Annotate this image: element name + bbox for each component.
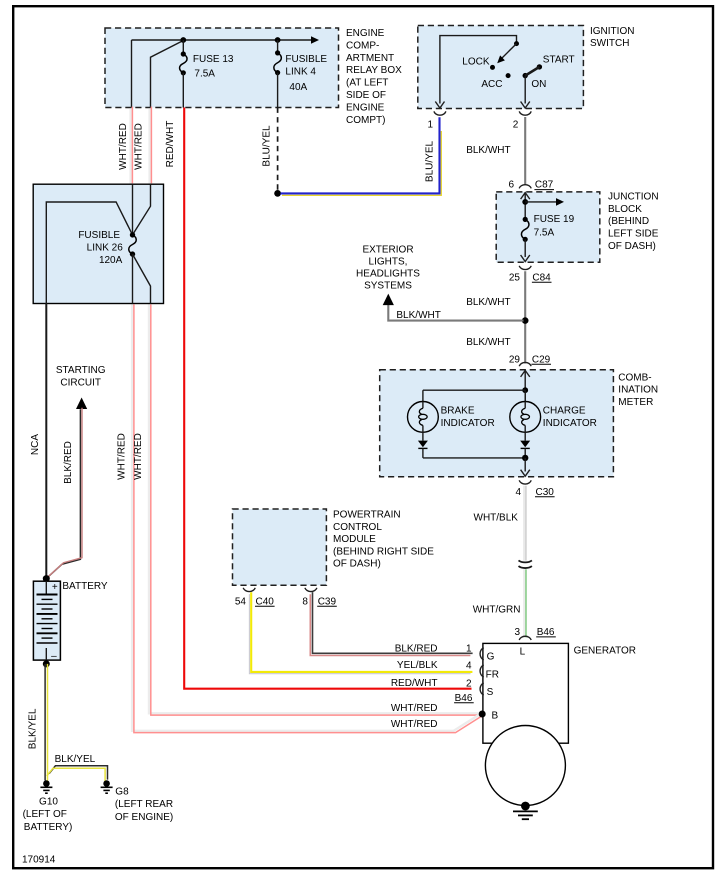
wire WHT/GRN: [523, 569, 526, 637]
wire BLK/RED C39 to generator G: [313, 592, 473, 653]
svg-text:C84: C84: [532, 272, 551, 283]
wire BLK/WHT ignition pin2 to C87: [524, 117, 526, 185]
node fuse13 bus junction: [180, 37, 186, 43]
wire WHT/RED 2 inside relay box: [151, 41, 184, 108]
arrow to right in relay box: [311, 36, 319, 44]
svg-text:G8: G8: [115, 786, 129, 797]
wire BLK/RED battery to starting circuit: [46, 409, 81, 579]
svg-text:BATTERY): BATTERY): [24, 822, 73, 833]
fuse F13 FUSE 13 7.5A: [181, 51, 186, 56]
svg-text:6: 6: [508, 180, 514, 191]
svg-text:COMP-: COMP-: [346, 40, 379, 51]
svg-text:29: 29: [509, 354, 521, 365]
wire below fl26 right: [133, 254, 151, 303]
node fusible link 4 bus junction: [275, 37, 281, 43]
svg-text:B46: B46: [537, 627, 555, 638]
node junction block tap: [522, 199, 528, 205]
wire ignition pin2: [524, 76, 526, 104]
lamp charge indicator: [524, 390, 526, 401]
svg-text:BLK/YEL: BLK/YEL: [28, 708, 39, 749]
svg-text:LIGHTS,: LIGHTS,: [369, 257, 408, 268]
wire WHT/RED A inside box: [132, 184, 134, 235]
svg-text:1: 1: [427, 120, 433, 131]
wire below fusible link 4: [277, 73, 279, 108]
svg-text:SIDE OF: SIDE OF: [346, 90, 386, 101]
wire into junction block: [524, 193, 526, 219]
svg-text:STARTING: STARTING: [56, 365, 106, 376]
svg-text:C40: C40: [256, 596, 275, 607]
ignition switch box: [418, 26, 584, 109]
connector C39: [305, 588, 317, 592]
arrow up at junction block top: [521, 193, 530, 200]
wire below fuse19: [524, 239, 526, 257]
svg-text:BLK/WHT: BLK/WHT: [466, 297, 510, 308]
svg-text:S: S: [487, 687, 494, 698]
connector C29: [519, 362, 531, 366]
wire BLK/WHT C84 to C29: [524, 271, 526, 363]
svg-text:WHT/BLK: WHT/BLK: [474, 512, 519, 523]
wire BLK/YEL battery to G10: [44, 664, 46, 781]
wire battery feed inside box: [46, 202, 132, 304]
battery: [33, 581, 60, 660]
svg-text:ON: ON: [531, 79, 546, 90]
svg-text:4: 4: [466, 661, 472, 672]
svg-text:G: G: [487, 651, 495, 662]
svg-text:OF ENGINE): OF ENGINE): [115, 812, 173, 823]
wire RED/WHT long from fuse13 to generator S: [184, 108, 471, 689]
svg-text:BLK/WHT: BLK/WHT: [466, 337, 510, 348]
connector FR pin 4: [480, 665, 484, 677]
svg-text:BLOCK: BLOCK: [608, 204, 642, 215]
connector C40: [243, 588, 255, 592]
svg-text:C39: C39: [318, 596, 337, 607]
junction block box: [496, 192, 600, 262]
svg-text:SYSTEMS: SYSTEMS: [364, 281, 412, 292]
svg-text:FUSIBLE: FUSIBLE: [78, 230, 120, 241]
svg-text:C87: C87: [535, 180, 554, 191]
svg-text:CIRCUIT: CIRCUIT: [60, 377, 101, 388]
inline connector break: [519, 560, 532, 562]
svg-text:(AT LEFT: (AT LEFT: [346, 78, 388, 89]
svg-text:+: +: [52, 582, 58, 593]
arrow up starting circuit: [76, 398, 87, 410]
arrow up exterior lights: [383, 294, 394, 306]
switch blade toward LOCK: [501, 44, 517, 60]
wire WHT/RED B inside box: [133, 184, 151, 235]
svg-text:LEFT SIDE: LEFT SIDE: [608, 228, 659, 239]
wire fl4 stub: [277, 40, 279, 53]
svg-text:G10: G10: [39, 797, 58, 808]
arrow into pin 2: [521, 102, 530, 109]
svg-text:LINK 26: LINK 26: [87, 242, 124, 253]
svg-text:CHARGE: CHARGE: [543, 406, 586, 417]
svg-text:BLK/RED: BLK/RED: [63, 441, 74, 484]
connector C87: [519, 185, 531, 189]
svg-text:YEL/BLK: YEL/BLK: [397, 660, 438, 671]
svg-text:WHT/RED: WHT/RED: [134, 123, 145, 170]
svg-text:3: 3: [514, 627, 520, 638]
node battery negative: [43, 660, 50, 667]
wire WHT/RED B relay box to fusible link box: [148, 108, 150, 185]
wire WHT/RED 1 inside relay box: [131, 40, 133, 108]
svg-text:(LEFT REAR: (LEFT REAR: [115, 799, 173, 810]
wire comb meter main: [524, 371, 526, 402]
wire WHT/RED A relay box to fusible link box: [129, 108, 131, 185]
wire comb meter out: [524, 458, 526, 472]
svg-text:GENERATOR: GENERATOR: [574, 646, 636, 657]
svg-text:8: 8: [302, 596, 308, 607]
arrow down at junction block bottom: [521, 255, 530, 262]
generator ground: [521, 802, 530, 811]
svg-text:START: START: [543, 54, 575, 65]
svg-text:FUSIBLE: FUSIBLE: [285, 54, 327, 65]
wire WHT/BLK: [523, 486, 526, 561]
contact ACC: [506, 73, 511, 78]
wire BLU/YEL blue: [281, 117, 440, 193]
node comb meter tap: [522, 387, 528, 393]
fusible link FL26 LINK 26 120A: [130, 232, 135, 237]
connector pin 1: [434, 111, 446, 115]
wire BLU/YEL yellow stripe: [282, 131, 441, 195]
diode brake: [418, 441, 428, 448]
connector B46 pin 3: [519, 636, 531, 640]
svg-text:IGNITION: IGNITION: [590, 26, 634, 37]
svg-text:ENGINE: ENGINE: [346, 102, 385, 113]
wire WHT/RED 2 to B terminal: [149, 303, 480, 714]
svg-text:2: 2: [466, 679, 472, 690]
svg-text:C30: C30: [536, 487, 555, 498]
svg-text:ENGINE: ENGINE: [346, 28, 385, 39]
fuse F19 FUSE 19 7.5A: [523, 217, 528, 222]
wire below fl26 left: [132, 254, 134, 303]
arrow into pin 1: [435, 102, 444, 109]
svg-text:2: 2: [513, 120, 519, 131]
svg-text:25: 25: [509, 272, 521, 283]
combination meter box: [380, 370, 614, 477]
svg-text:OF DASH): OF DASH): [333, 559, 381, 570]
svg-text:BLK/YEL: BLK/YEL: [55, 754, 96, 765]
svg-text:LOCK: LOCK: [462, 57, 490, 68]
svg-text:WHT/RED: WHT/RED: [133, 433, 144, 480]
svg-text:FUSE 13: FUSE 13: [193, 54, 234, 65]
ground G8: [103, 780, 110, 787]
svg-text:BLK/WHT: BLK/WHT: [396, 310, 440, 321]
wire NCA fusible box to battery: [45, 304, 47, 579]
svg-text:WHT/RED: WHT/RED: [118, 123, 129, 170]
svg-text:RELAY BOX: RELAY BOX: [346, 65, 402, 76]
svg-text:–: –: [51, 651, 57, 662]
svg-text:WHT/GRN: WHT/GRN: [473, 605, 521, 616]
terminal B node: [479, 711, 486, 718]
wire ignition pin1 feed: [440, 36, 517, 104]
fusible link FL4 LINK 4 40A: [275, 50, 280, 55]
connector C84: [519, 266, 531, 270]
svg-text:L: L: [520, 647, 526, 658]
arrow on LOCK blade: [497, 55, 505, 63]
svg-text:1: 1: [466, 643, 472, 654]
wire BLK/WHT branch to exterior lights: [388, 305, 523, 321]
svg-text:BLU/YEL: BLU/YEL: [262, 125, 273, 167]
svg-text:LINK 4: LINK 4: [285, 67, 316, 78]
svg-text:COMPT): COMPT): [346, 115, 385, 126]
svg-text:INDICATOR: INDICATOR: [441, 418, 495, 429]
svg-text:BLK/WHT: BLK/WHT: [466, 145, 510, 156]
svg-text:NCA: NCA: [30, 434, 41, 455]
svg-text:JUNCTION: JUNCTION: [608, 191, 659, 202]
wire below fuse13: [182, 73, 184, 108]
svg-text:OF DASH): OF DASH): [608, 241, 656, 252]
svg-text:CONTROL: CONTROL: [333, 522, 382, 533]
wire to brake indicator: [423, 389, 525, 391]
svg-text:SWITCH: SWITCH: [590, 38, 629, 49]
wire YEL/BLK C40 to generator FR: [251, 592, 472, 672]
svg-text:FR: FR: [486, 670, 499, 681]
wire bottom bus in comb meter: [423, 457, 525, 459]
contact LOCK: [490, 65, 495, 70]
generator box: [483, 643, 569, 743]
switch blade ON-START: [525, 67, 539, 76]
wire tap arrow right: [525, 201, 556, 203]
svg-text:ACC: ACC: [481, 79, 502, 90]
svg-text:C29: C29: [532, 354, 551, 365]
svg-text:INATION: INATION: [618, 385, 658, 396]
ground G10: [43, 780, 50, 787]
svg-text:170914: 170914: [22, 855, 56, 866]
fusible link 26 box: [33, 184, 163, 303]
svg-text:BLK/RED: BLK/RED: [395, 644, 438, 655]
diode charge: [520, 441, 530, 448]
svg-text:POWERTRAIN: POWERTRAIN: [333, 510, 401, 521]
svg-text:FUSE 19: FUSE 19: [534, 214, 575, 225]
svg-text:120A: 120A: [99, 255, 123, 266]
contact START: [537, 64, 542, 69]
svg-text:BLU/YEL: BLU/YEL: [425, 140, 436, 182]
generator rotor circle: [485, 726, 565, 806]
node BLU/YEL junction: [274, 190, 281, 197]
node rotor pivot: [514, 41, 519, 46]
svg-text:54: 54: [235, 596, 247, 607]
svg-text:WHT/RED: WHT/RED: [391, 703, 438, 714]
node battery positive: [43, 575, 50, 582]
svg-text:RED/WHT: RED/WHT: [165, 121, 176, 168]
svg-text:METER: METER: [618, 397, 653, 408]
connector pin 2: [519, 111, 531, 115]
svg-text:7.5A: 7.5A: [194, 68, 215, 79]
engine compartment relay box: [105, 28, 339, 108]
wire BLU/YEL dashed section: [277, 108, 279, 194]
connector G pin 1: [480, 648, 484, 660]
wire BLK/YEL branch to G8: [49, 766, 107, 780]
contact ON: [523, 73, 528, 78]
connector C30: [519, 480, 531, 484]
svg-text:(BEHIND: (BEHIND: [608, 216, 649, 227]
svg-text:B: B: [492, 711, 499, 722]
svg-text:INDICATOR: INDICATOR: [543, 418, 597, 429]
wire bus in relay box: [132, 39, 312, 41]
node BLK/WHT branch: [522, 317, 529, 324]
svg-text:WHT/RED: WHT/RED: [117, 433, 128, 480]
svg-text:BRAKE: BRAKE: [441, 406, 475, 417]
svg-text:COMB-: COMB-: [618, 373, 651, 384]
svg-text:(BEHIND RIGHT SIDE: (BEHIND RIGHT SIDE: [333, 546, 434, 557]
svg-text:4: 4: [515, 487, 521, 498]
svg-text:RED/WHT: RED/WHT: [391, 678, 438, 689]
svg-text:B46: B46: [455, 693, 473, 704]
powertrain control module box: [233, 509, 327, 585]
svg-text:(LEFT OF: (LEFT OF: [23, 809, 67, 820]
svg-text:7.5A: 7.5A: [534, 227, 555, 238]
svg-text:EXTERIOR: EXTERIOR: [362, 244, 413, 255]
svg-text:WHT/RED: WHT/RED: [391, 719, 438, 730]
node comb meter out: [522, 455, 528, 461]
svg-text:ARTMENT: ARTMENT: [346, 53, 394, 64]
svg-text:40A: 40A: [289, 82, 307, 93]
svg-text:HEADLIGHTS: HEADLIGHTS: [356, 269, 420, 280]
svg-text:BATTERY: BATTERY: [62, 581, 108, 592]
connector S pin 2: [480, 683, 484, 695]
wire fuse13 stub: [182, 40, 184, 54]
lamp brake indicator: [408, 402, 439, 433]
wire WHT/RED 1 to B terminal: [132, 303, 481, 731]
svg-text:MODULE: MODULE: [333, 534, 376, 545]
